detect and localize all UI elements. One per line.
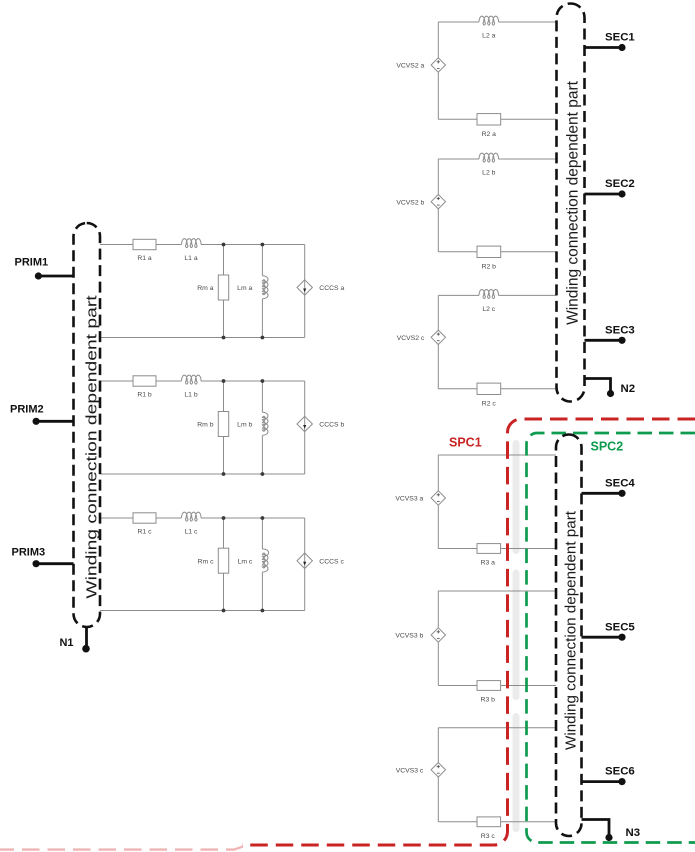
svg-text:SEC1: SEC1 — [605, 32, 635, 44]
wire: secondary b bottom right segment — [501, 251, 557, 253]
node PRIM1 — [15, 257, 74, 280]
inductor L2 b — [479, 153, 499, 176]
wire: tertiary b left vertical bottom — [437, 642, 439, 685]
secondary winding cell phase a — [396, 16, 556, 138]
wire: primary a bottom segment — [100, 337, 305, 339]
resistor R3 b — [477, 681, 501, 704]
junction — [261, 243, 265, 247]
tertiary winding cell phase c — [396, 728, 556, 840]
wire: tertiary b left vertical top — [437, 591, 439, 628]
voltage source VCVS2 a — [396, 58, 445, 72]
wire: secondary c left vertical top — [437, 295, 439, 330]
svg-text:PRIM3: PRIM3 — [12, 547, 46, 559]
inductor L2 a — [479, 16, 499, 39]
resistor R1 a — [133, 239, 156, 261]
resistor Rm a branch — [197, 245, 228, 338]
svg-text:SEC2: SEC2 — [605, 178, 635, 190]
resistor R2 c — [477, 383, 501, 407]
junction — [261, 379, 265, 383]
svg-text:R2 b: R2 b — [482, 263, 497, 270]
wire: tertiary a left vertical bottom — [437, 505, 439, 548]
wire: primary b top left segment — [100, 380, 133, 382]
wire: primary c top right segment — [201, 517, 305, 519]
resistor R2 a — [477, 114, 501, 138]
wire: secondary b top left segment — [438, 158, 479, 160]
wire: secondary b top right segment — [498, 158, 556, 160]
svg-text:PRIM2: PRIM2 — [10, 403, 44, 415]
wire: secondary a bottom right segment — [501, 118, 557, 120]
voltage source VCVS3 b — [395, 628, 445, 642]
primary winding cell phase c — [100, 512, 344, 612]
wire: tertiary a top segment — [438, 454, 556, 456]
svg-text:Winding connection dependent p: Winding connection dependent part — [565, 80, 582, 325]
resistor Rm b branch — [197, 381, 228, 474]
wire: tertiary c bottom left segment — [438, 821, 477, 823]
wire: tertiary c left vertical top — [437, 728, 439, 763]
primary winding cell phase b — [100, 375, 344, 476]
winding connection boundary oval (primary) — [74, 223, 101, 627]
wire: primary a between R1 and L1 — [156, 244, 182, 246]
boundary SPC2 (green dashed) — [527, 433, 695, 843]
wire: secondary a bottom left segment — [438, 118, 477, 120]
wire: primary b top right segment — [201, 380, 305, 382]
wire: secondary c left vertical bottom — [437, 345, 439, 389]
junction — [222, 516, 226, 520]
wire: tertiary a bottom right segment — [501, 548, 556, 550]
svg-text:N2: N2 — [621, 383, 636, 395]
inductor L1 a — [182, 239, 202, 262]
svg-text:Rm a: Rm a — [197, 285, 213, 292]
junction — [222, 609, 226, 613]
junction — [261, 516, 265, 520]
junction — [261, 472, 265, 476]
svg-text:R1 a: R1 a — [137, 255, 152, 262]
node SEC3 — [585, 324, 635, 344]
wire: primary b between R1 and L1 — [156, 380, 182, 382]
wire: tertiary c left vertical bottom — [437, 777, 439, 822]
svg-text:SEC5: SEC5 — [605, 621, 635, 633]
svg-text:CCCS c: CCCS c — [319, 558, 344, 565]
svg-text:Lm c: Lm c — [238, 558, 253, 565]
inductor Lm b branch — [237, 381, 268, 474]
resistor R3 a — [477, 544, 501, 567]
svg-text:VCVS2 a: VCVS2 a — [396, 63, 424, 70]
voltage source VCVS2 b — [396, 195, 445, 209]
svg-text:Rm c: Rm c — [198, 558, 214, 565]
highlight bar segment 3 — [513, 713, 520, 832]
wire: secondary c bottom right segment — [501, 388, 557, 390]
wire: secondary b bottom left segment — [438, 251, 477, 253]
winding connection boundary oval (secondary) — [557, 4, 585, 402]
svg-text:L2 c: L2 c — [482, 306, 495, 313]
current source CCCS a — [297, 245, 344, 338]
wire: secondary a left vertical top — [437, 22, 439, 58]
svg-text:N3: N3 — [626, 827, 641, 839]
svg-text:SEC6: SEC6 — [605, 766, 635, 778]
node N1 — [59, 627, 89, 653]
node PRIM3 — [12, 547, 74, 568]
svg-text:R2 a: R2 a — [482, 131, 497, 138]
wire: tertiary a bottom left segment — [438, 548, 477, 550]
voltage source VCVS3 a — [395, 491, 445, 505]
resistor R3 c — [477, 817, 501, 840]
winding connection boundary oval (tertiary) — [556, 435, 582, 837]
wire: tertiary c bottom right segment — [501, 821, 556, 823]
secondary winding cell phase c — [397, 289, 557, 407]
svg-text:Rm b: Rm b — [197, 422, 213, 429]
boundary SPC1 (red dashed) — [242, 419, 695, 845]
svg-text:R2 c: R2 c — [482, 400, 497, 407]
svg-text:R1 b: R1 b — [137, 391, 152, 398]
node SEC4 — [582, 477, 636, 497]
boundary SPC1 faint clipped continuation — [0, 847, 243, 850]
svg-text:VCVS2 b: VCVS2 b — [396, 199, 424, 206]
inductor L1 c — [182, 512, 202, 535]
wire: tertiary b bottom right segment — [501, 685, 556, 687]
node SEC2 — [585, 178, 635, 197]
node PRIM2 — [10, 403, 74, 425]
svg-text:R3 b: R3 b — [481, 697, 496, 704]
resistor Rm c branch — [198, 518, 229, 611]
tertiary winding cell phase b — [395, 591, 556, 704]
svg-text:R3 c: R3 c — [481, 833, 496, 840]
svg-text:L2 b: L2 b — [482, 169, 495, 176]
wire: tertiary b top segment — [438, 590, 556, 592]
current source CCCS b — [297, 381, 344, 474]
svg-text:L1 a: L1 a — [184, 255, 197, 262]
svg-text:Lm a: Lm a — [237, 285, 252, 292]
resistor R1 b — [133, 376, 156, 399]
svg-text:CCCS a: CCCS a — [319, 285, 344, 292]
wire: primary c between R1 and L1 — [156, 517, 182, 519]
svg-text:Winding connection dependent p: Winding connection dependent part — [563, 510, 580, 750]
svg-text:VCVS3 b: VCVS3 b — [395, 633, 423, 640]
wire: secondary c top right segment — [498, 294, 556, 296]
svg-text:PRIM1: PRIM1 — [15, 257, 49, 269]
svg-text:SPC1: SPC1 — [449, 436, 482, 450]
svg-text:SEC3: SEC3 — [605, 324, 635, 336]
secondary winding cell phase b — [396, 153, 556, 270]
junction — [261, 336, 265, 340]
inductor Lm a branch — [237, 245, 268, 338]
svg-text:Lm b: Lm b — [237, 422, 252, 429]
voltage source VCVS2 c — [397, 330, 446, 344]
svg-text:N1: N1 — [59, 637, 73, 649]
junction — [222, 379, 226, 383]
wire: secondary a top right segment — [498, 21, 556, 23]
wire: tertiary b bottom left segment — [438, 685, 477, 687]
wire: secondary c top left segment — [438, 294, 479, 296]
node SEC1 — [585, 32, 636, 52]
inductor L1 b — [182, 375, 202, 398]
inductor Lm c branch — [238, 518, 269, 611]
wire: secondary a left vertical bottom — [437, 72, 439, 119]
svg-text:VCVS3 c: VCVS3 c — [396, 767, 424, 774]
node N3 — [582, 820, 641, 842]
wire: secondary a top left segment — [438, 21, 479, 23]
tertiary winding cell phase a — [395, 455, 556, 567]
voltage source VCVS3 c — [396, 763, 446, 777]
wire: tertiary c top segment — [438, 727, 556, 729]
wire: primary a top right segment — [201, 244, 305, 246]
svg-text:L1 b: L1 b — [184, 391, 197, 398]
junction — [261, 609, 265, 613]
wire: secondary c bottom left segment — [438, 388, 477, 390]
svg-text:L1 c: L1 c — [185, 528, 198, 535]
primary winding cell phase a — [100, 239, 344, 340]
junction — [222, 336, 226, 340]
svg-text:R1 c: R1 c — [138, 528, 153, 535]
node SEC6 — [582, 766, 635, 786]
wire: secondary b left vertical top — [437, 159, 439, 195]
resistor R1 c — [133, 513, 156, 536]
svg-text:CCCS b: CCCS b — [319, 422, 344, 429]
svg-text:VCVS3 a: VCVS3 a — [395, 496, 423, 503]
svg-text:SEC4: SEC4 — [605, 477, 635, 489]
wire: primary b bottom segment — [100, 473, 305, 475]
wire: primary c top left segment — [100, 517, 133, 519]
wire: primary c bottom segment — [100, 610, 305, 612]
junction — [222, 243, 226, 247]
wire: tertiary a left vertical top — [437, 455, 439, 491]
resistor R2 b — [477, 246, 501, 270]
svg-text:R3 a: R3 a — [481, 560, 496, 567]
current source CCCS c — [297, 518, 344, 611]
highlight bar segment 1 — [513, 440, 520, 554]
node SEC5 — [582, 621, 636, 641]
junction — [222, 472, 226, 476]
node N2 — [585, 379, 636, 398]
inductor L2 c — [479, 289, 499, 312]
highlight bar segment 2 — [513, 570, 520, 701]
wire: secondary b left vertical bottom — [437, 209, 439, 252]
svg-text:Winding connection dependent p: Winding connection dependent part — [83, 295, 100, 598]
svg-text:L2 a: L2 a — [482, 32, 495, 39]
svg-text:SPC2: SPC2 — [591, 440, 624, 454]
svg-text:VCVS2 c: VCVS2 c — [397, 335, 425, 342]
wire: primary a top left segment — [100, 244, 133, 246]
